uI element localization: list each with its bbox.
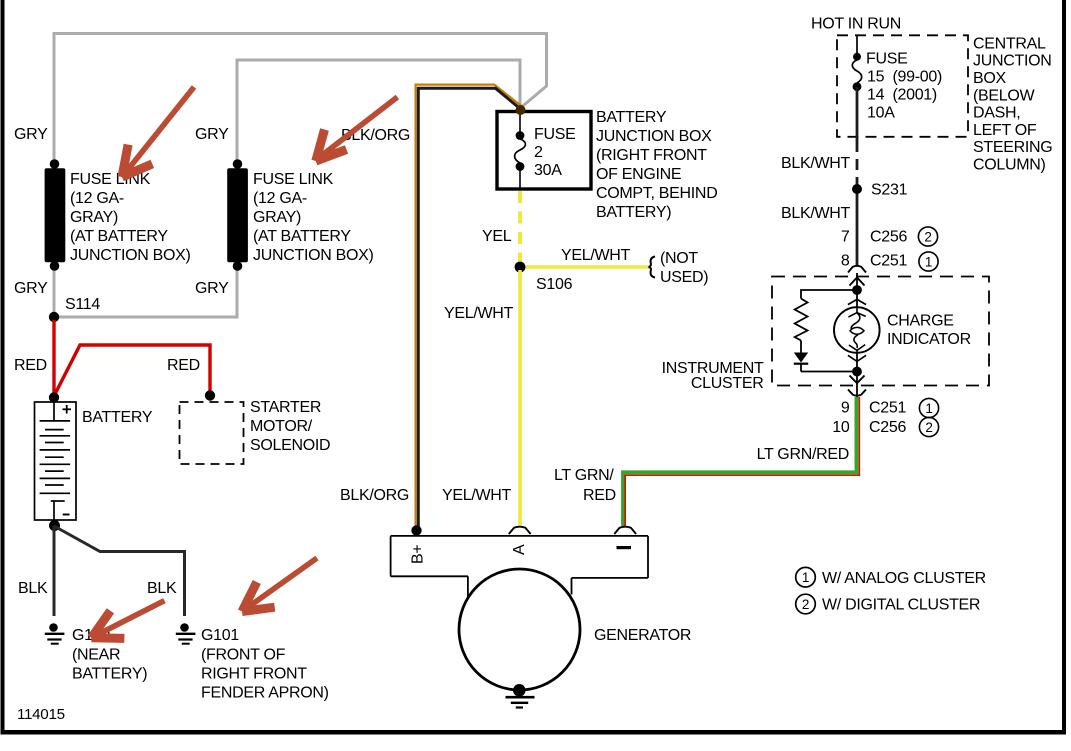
arrowhead down at cluster exit (850, 376, 865, 384)
svg-text:BATTERY): BATTERY) (72, 666, 147, 683)
svg-text:YEL: YEL (482, 228, 512, 245)
starter motor/solenoid box (180, 402, 244, 464)
svg-text:GRAY): GRAY) (70, 209, 118, 226)
svg-text:CENTRAL: CENTRAL (973, 35, 1046, 52)
wire RED S114 to battery positive (52, 320, 55, 396)
svg-text:(12 GA-: (12 GA- (70, 190, 124, 207)
wire YEL/WHT from S106 to not-used connector (520, 265, 649, 268)
svg-text:C251: C251 (870, 253, 907, 270)
svg-text:1: 1 (925, 401, 932, 416)
svg-text:CHARGE: CHARGE (887, 313, 954, 330)
legend circled 2 digital cluster (796, 594, 816, 614)
node junction bottom (charge indicator) (852, 367, 862, 377)
svg-text:9: 9 (841, 400, 850, 417)
frame bottom border (1, 730, 1067, 735)
svg-text:SOLENOID: SOLENOID (250, 437, 330, 454)
wire BLK/WHT fuse to S231 (856, 87, 859, 141)
svg-text:7: 7 (841, 229, 850, 246)
svg-text:LT GRN/: LT GRN/ (554, 467, 614, 484)
frame left border (1, 0, 5, 735)
svg-text:2: 2 (534, 144, 543, 161)
svg-text:2: 2 (925, 420, 932, 435)
connector arc at generator I terminal (614, 527, 636, 534)
wire BLK/ORG orange stripe (416, 85, 522, 529)
svg-text:FENDER APRON): FENDER APRON) (201, 685, 329, 702)
pin label I (rotated bar) (617, 546, 632, 549)
svg-text:FUSE LINK: FUSE LINK (253, 171, 334, 188)
legend circled 1 analog cluster (796, 567, 816, 587)
svg-text:OF ENGINE: OF ENGINE (596, 166, 681, 183)
svg-text:YEL/WHT: YEL/WHT (561, 247, 631, 264)
svg-text:YEL/WHT: YEL/WHT (442, 487, 512, 504)
svg-text:HOT IN RUN: HOT IN RUN (811, 16, 901, 33)
wire BLK/ORG black core from battery junction box to generator B+ (418, 88, 520, 530)
svg-text:(NOT: (NOT (660, 250, 698, 267)
wire BLK battery negative to ground G101 (54, 526, 185, 616)
svg-text:BATTERY): BATTERY) (596, 204, 671, 221)
svg-text:10A: 10A (867, 105, 895, 122)
svg-text:FUSE: FUSE (866, 51, 907, 68)
wire RED battery positive to starter solenoid (54, 345, 210, 396)
svg-text:BLK: BLK (18, 580, 48, 597)
wire resistor to diode (800, 341, 802, 353)
svg-text:G101: G101 (201, 627, 239, 644)
svg-text:FUSE: FUSE (534, 126, 575, 143)
node battery negative terminal (49, 520, 60, 531)
wire GRY from fuse link F1 top to battery junction box (54, 34, 547, 164)
svg-text:LEFT OF: LEFT OF (973, 122, 1037, 139)
svg-text:GRY: GRY (195, 280, 229, 297)
wire GRY from fuse link F2 top to battery junction box (237, 60, 520, 164)
svg-text:BATTERY: BATTERY (596, 109, 667, 126)
svg-text:JUNCTION: JUNCTION (973, 53, 1051, 70)
svg-text:BLK/WHT: BLK/WHT (781, 155, 851, 172)
fuse F2 30A symbol (515, 113, 526, 188)
svg-text:CLUSTER: CLUSTER (691, 375, 764, 392)
svg-text:BLK/ORG: BLK/ORG (340, 487, 409, 504)
svg-text:(BELOW: (BELOW (973, 87, 1036, 104)
svg-text:COMPT, BEHIND: COMPT, BEHIND (596, 185, 717, 202)
svg-text:A: A (511, 544, 528, 555)
ground G1 (45, 623, 65, 644)
wire into fuse 15 (856, 36, 858, 56)
fuse link F2 (12 GA gray, at battery junction box) (227, 159, 248, 271)
svg-text:STEERING: STEERING (973, 139, 1052, 156)
svg-text:S106: S106 (536, 276, 573, 293)
wire diode to lamp bottom junction (801, 371, 857, 373)
arrowhead up at cluster entry (850, 278, 865, 286)
central junction box (dashed) (837, 35, 968, 137)
svg-text:RIGHT FRONT: RIGHT FRONT (201, 666, 307, 683)
connector brace (not used) (649, 257, 655, 278)
svg-text:(RIGHT FRONT: (RIGHT FRONT (596, 147, 707, 164)
svg-text:BATTERY: BATTERY (82, 409, 153, 426)
svg-text:(AT BATTERY: (AT BATTERY (70, 228, 168, 245)
circled 1 (pin9) (919, 398, 938, 417)
node S231 (852, 184, 862, 194)
resistor (charge indicator shunt) (795, 299, 808, 341)
diode CR1 (794, 353, 808, 372)
wire inside instrument cluster (856, 273, 858, 397)
svg-text:S114: S114 (65, 296, 100, 313)
svg-text:2: 2 (924, 230, 931, 245)
svg-text:RED: RED (583, 487, 616, 504)
svg-text:STARTER: STARTER (250, 399, 321, 416)
svg-text:JUNCTION BOX): JUNCTION BOX) (253, 247, 374, 264)
connector arc at generator A terminal (509, 527, 531, 534)
svg-text:GRY: GRY (195, 126, 229, 143)
svg-text:C256: C256 (870, 229, 907, 246)
svg-text:C251: C251 (869, 400, 906, 417)
svg-text:JUNCTION BOX): JUNCTION BOX) (70, 247, 191, 264)
svg-text:114015: 114015 (17, 706, 65, 723)
svg-text:RED: RED (14, 357, 47, 374)
svg-text:GENERATOR: GENERATOR (594, 627, 691, 644)
connector arc at instrument cluster entry (848, 266, 866, 273)
red arrow 1 (points at fuse link F1) (122, 87, 194, 177)
svg-text:W/ ANALOG CLUSTER: W/ ANALOG CLUSTER (822, 570, 986, 587)
circled 2 (pin7) (918, 227, 937, 246)
connector arc below instrument cluster (848, 390, 866, 396)
fuse F15/F14 10A symbol (852, 53, 861, 91)
ground G101 (176, 623, 196, 644)
frame right border (1062, 0, 1066, 735)
node S114 (49, 312, 59, 322)
svg-text:COLUMN): COLUMN) (973, 157, 1046, 174)
svg-text:BOX: BOX (973, 70, 1007, 87)
svg-text:1: 1 (925, 255, 932, 270)
wire LT GRN/RED red stripe (625, 397, 859, 526)
svg-text:USED): USED) (660, 269, 708, 286)
node junction top (charge indicator) (852, 285, 862, 295)
svg-text:(12 GA-: (12 GA- (253, 190, 307, 207)
red arrow 2 (points at fuse link F2) (316, 97, 398, 161)
svg-text:BLK: BLK (147, 580, 177, 597)
circled 2 (pin10) (919, 417, 938, 436)
node B+ terminal dot (411, 525, 421, 535)
svg-text:(AT BATTERY: (AT BATTERY (253, 228, 351, 245)
wire GRY fuse link F2 bottom to node S114 (56, 266, 237, 317)
svg-text:DASH,: DASH, (973, 105, 1020, 122)
svg-text:S231: S231 (871, 182, 908, 199)
svg-text:YEL/WHT: YEL/WHT (444, 305, 514, 322)
circled 1 (pin8) (919, 252, 938, 271)
node battery positive terminal (49, 392, 59, 402)
instrument cluster box (dashed) (772, 277, 989, 386)
charge indicator lamp (834, 299, 880, 361)
svg-text:JUNCTION BOX: JUNCTION BOX (596, 128, 712, 145)
svg-text:2: 2 (802, 597, 809, 612)
svg-text:RED: RED (167, 357, 200, 374)
wire BLK battery negative to ground G1 (53, 526, 56, 616)
svg-text:14 (2001): 14 (2001) (867, 87, 937, 104)
fuse link F1 (12 GA gray, at battery junction box) (45, 159, 66, 271)
svg-text:8: 8 (841, 253, 850, 270)
svg-text:MOTOR/: MOTOR/ (250, 418, 313, 435)
svg-text:GRY: GRY (14, 126, 48, 143)
svg-text:1: 1 (802, 570, 809, 585)
wire YEL/WHT from S106 to generator A terminal (518, 270, 522, 526)
wire GRY fuse link F1 bottom to node S114 (53, 266, 56, 317)
svg-text:GRAY): GRAY) (253, 209, 301, 226)
node junction at battery junction box top (516, 105, 526, 115)
battery junction box (fuse 2 30A) (497, 112, 591, 190)
svg-text:BLK/WHT: BLK/WHT (781, 205, 851, 222)
svg-text:LT GRN/RED: LT GRN/RED (757, 446, 849, 463)
svg-text:(NEAR: (NEAR (72, 647, 120, 664)
svg-text:INDICATOR: INDICATOR (887, 331, 971, 348)
ground at generator (506, 684, 535, 708)
generator connector box (391, 536, 648, 597)
wire LT GRN/RED green core from instrument cluster to generator I (623, 397, 856, 526)
red arrow 3 (points at ground G1) (91, 601, 164, 639)
svg-text:(FRONT OF: (FRONT OF (201, 647, 286, 664)
svg-text:C256: C256 (869, 419, 906, 436)
battery BAT1 (35, 402, 77, 520)
red arrow 4 (points at ground G101) (242, 558, 317, 612)
svg-text:15 (99-00): 15 (99-00) (867, 69, 942, 86)
svg-text:10: 10 (832, 419, 850, 436)
wire branch to resistor (801, 290, 857, 299)
svg-text:W/ DIGITAL CLUSTER: W/ DIGITAL CLUSTER (822, 597, 980, 614)
wire YEL dashed from fuse 2 to node S106 (518, 191, 522, 265)
svg-text:30A: 30A (534, 162, 562, 179)
svg-text:GRY: GRY (14, 280, 48, 297)
generator body circle (459, 569, 580, 690)
node S106 (515, 262, 526, 273)
node starter solenoid terminal (205, 390, 215, 400)
svg-text:B+: B+ (410, 545, 427, 564)
